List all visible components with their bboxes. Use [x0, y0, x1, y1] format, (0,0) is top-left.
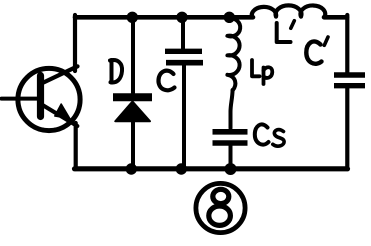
capacitor C plate top	[165, 49, 202, 54]
node top junction 1	[127, 12, 138, 23]
label L'	[277, 21, 295, 42]
transistor Q1 circle	[18, 68, 80, 130]
wire top right	[324, 15, 347, 20]
label C'	[306, 37, 328, 64]
wire left vertical lower	[74, 123, 78, 169]
capacitor Cs plate bottom	[213, 140, 248, 146]
wire capacitor C branch lower	[182, 66, 186, 170]
wire diode branch upper	[131, 17, 135, 93]
wire capacitor C branch upper	[181, 17, 185, 49]
node top junction 3	[224, 12, 235, 23]
wire bottom horizontal	[75, 166, 348, 171]
transistor Q1 emitter	[43, 105, 78, 126]
wire base lead	[2, 97, 41, 101]
label Lp	[252, 60, 272, 84]
wire right vertical lower	[345, 89, 349, 170]
capacitor C1 plates	[334, 72, 365, 78]
node bottom junction 2	[176, 163, 187, 174]
wire left vertical upper	[73, 15, 77, 71]
wire diode branch lower	[131, 120, 135, 169]
wire Cs lower	[229, 145, 233, 169]
node bottom junction 3	[225, 163, 237, 175]
node bottom junction 1	[126, 163, 137, 174]
label D	[110, 60, 122, 83]
figure number 8 glyph	[213, 189, 229, 203]
transistor Q1 emitter arrow	[55, 104, 70, 119]
capacitor C plate bottom	[166, 60, 203, 66]
node top junction 2	[176, 12, 187, 23]
wire top horizontal	[75, 15, 253, 20]
inductor L'	[252, 5, 325, 17]
diode D anode triangle	[115, 102, 150, 122]
diode D cathode bar	[113, 93, 152, 101]
wire collector lead	[44, 66, 78, 82]
inductor Lp	[227, 18, 240, 90]
figure number 8 circle	[196, 183, 245, 232]
transistor Q1 base bar	[37, 76, 44, 117]
label Cs	[255, 124, 284, 146]
label C	[158, 71, 174, 91]
wire right vertical upper	[345, 15, 349, 73]
capacitor Cs plate top	[213, 129, 248, 135]
wire Lp to Cs	[231, 90, 233, 128]
